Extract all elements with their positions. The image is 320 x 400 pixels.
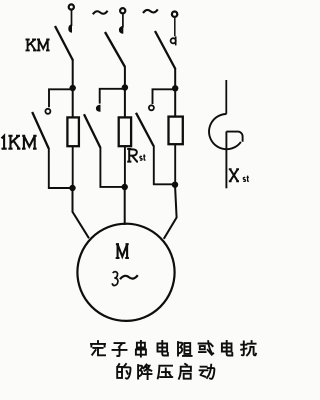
contact terminal 1KM phase C [149,105,154,110]
wire [100,147,124,187]
caption char 压 [158,366,172,379]
terminal L3 [172,12,177,17]
wire [225,80,227,114]
caption char 或 [199,341,214,355]
caption char 定 [91,341,105,355]
label M [116,244,129,258]
wire [174,144,176,184]
wire [124,146,126,187]
label Xst [229,169,239,181]
caption char 串 [136,341,146,357]
wire [225,131,227,188]
caption char 电 [222,341,232,356]
contact dot L1 [68,24,72,33]
resistor Rst phase B [119,117,131,146]
caption char 启 [179,364,191,379]
label Rst [127,149,138,162]
wire [122,14,124,27]
reactor Xst coil arc [209,114,241,149]
resistor Rst phase A [67,117,79,146]
contact terminal L3 [171,38,176,43]
wire [73,188,90,238]
caption char 阻 [178,342,192,356]
wire [72,146,74,188]
caption char 动 [200,365,215,379]
label KM [26,40,50,51]
contact terminal 1KM phase A [45,109,50,114]
caption char 抗 [241,341,256,355]
caption char 电 [158,341,168,356]
terminal L1 [69,4,74,9]
junction node phase A bottom [69,185,75,191]
wire [174,18,176,37]
motor M1 three-phase [77,224,174,321]
tilde between L1 and L2 [93,11,108,15]
wire [49,89,73,107]
wire [174,69,176,90]
wire [124,67,126,89]
contactor 1KM blade phase B [84,114,100,147]
wire [49,148,73,188]
wire [100,89,125,104]
wire [154,146,175,185]
wire [71,10,73,26]
contactor KM blade phase B [105,32,125,67]
contactor KM blade phase C [155,31,175,69]
wire [124,88,126,117]
wire [226,132,242,142]
contactor 1KM blade phase C [136,113,154,146]
caption char 子 [113,343,127,356]
wire [72,60,74,89]
tilde between L2 and L3 [143,9,158,13]
junction node phase B [122,84,128,90]
wire [164,185,177,239]
caption char 的 [117,364,130,379]
contactor 1KM blade phase A [32,112,49,149]
label 3~ [112,272,117,286]
contact dot L2 [119,26,123,34]
terminal L2 [120,8,125,13]
wire [175,36,177,45]
wire [153,89,176,104]
wire [72,88,74,117]
junction node phase C bottom [172,182,178,188]
resistor Rst phase C [169,117,183,145]
wire [174,89,176,117]
junction node phase C [172,85,178,91]
wire [124,187,126,225]
contact dot 1KM phase B [96,105,101,112]
caption char 降 [138,365,151,380]
label 1KM [2,136,37,149]
contactor KM blade phase A [55,26,73,61]
junction node phase B bottom [122,184,128,190]
junction node phase A [70,85,76,91]
